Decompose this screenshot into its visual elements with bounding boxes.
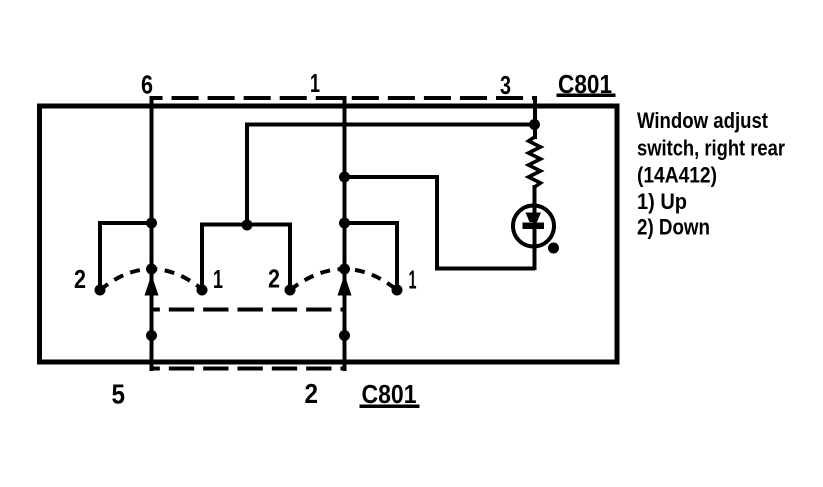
svg-text:1: 1 <box>409 265 417 295</box>
right switch contact 2 terminal <box>285 285 296 296</box>
svg-text:2: 2 <box>305 378 319 409</box>
wire lamp return to pin 1 wire <box>345 177 536 269</box>
wire branch to right switch contact 1 <box>345 223 398 290</box>
right switch common terminal <box>339 264 350 275</box>
wire branch to left switch contact 2 <box>100 223 152 290</box>
svg-text:2: 2 <box>74 264 86 294</box>
svg-text:2: 2 <box>268 264 280 294</box>
left switch wiper arrow <box>145 275 159 296</box>
svg-text:switch, right rear: switch, right rear <box>637 136 785 161</box>
svg-text:5: 5 <box>112 379 126 410</box>
svg-text:Window adjust: Window adjust <box>637 108 769 133</box>
left switch dashed rocker arc <box>100 269 203 290</box>
wire middle bridge (left contact 1 to right contact 2) <box>202 225 290 291</box>
junction pin 1 wire at contact branch <box>339 218 350 229</box>
svg-text:6: 6 <box>141 70 153 100</box>
connector C801 top dashed line <box>150 96 538 100</box>
right switch dashed rocker arc <box>290 269 397 290</box>
svg-text:(14A412): (14A412) <box>637 163 717 188</box>
svg-text:1) Up: 1) Up <box>637 189 687 214</box>
svg-text:1: 1 <box>213 264 223 294</box>
junction pin 3 wire <box>529 119 540 130</box>
right switch contact 1 terminal <box>392 285 403 296</box>
wire resistor to lamp and through lamp to return <box>533 185 537 270</box>
label C801 top <box>557 69 616 99</box>
junction on pin 6 wire <box>146 218 157 229</box>
wire pin 3 vertical top <box>533 96 537 139</box>
connector C801 bottom upper dashed line <box>150 308 347 312</box>
svg-text:1: 1 <box>310 68 320 98</box>
junction middle bridge <box>242 220 253 231</box>
wire pin 1 vertical (pin 1 to pin 2) <box>343 96 347 371</box>
left switch contact 2 terminal <box>95 285 106 296</box>
left switch common terminal <box>146 264 157 275</box>
wire feed from lamp node to middle bridge <box>247 125 535 225</box>
svg-text:2) Down: 2) Down <box>637 215 710 240</box>
wire pin 6 vertical (pin 6 to pin 5) <box>150 96 154 371</box>
right switch wiper arrow <box>338 275 352 296</box>
lamp L1 (illumination bulb) <box>513 206 559 254</box>
junction pin 2 wire below connector <box>339 330 350 341</box>
connector C801 bottom lower dashed line <box>150 367 347 371</box>
junction pin 5 wire below connector <box>146 330 157 341</box>
left switch contact 1 terminal <box>197 285 208 296</box>
svg-text:3: 3 <box>500 70 511 100</box>
label C801 bottom <box>360 379 420 409</box>
junction pin 1 wire at lamp return <box>339 172 350 183</box>
switch assembly outline box <box>40 106 618 362</box>
resistor (lamp ballast) <box>529 137 541 187</box>
annotation: component name <box>637 108 785 240</box>
